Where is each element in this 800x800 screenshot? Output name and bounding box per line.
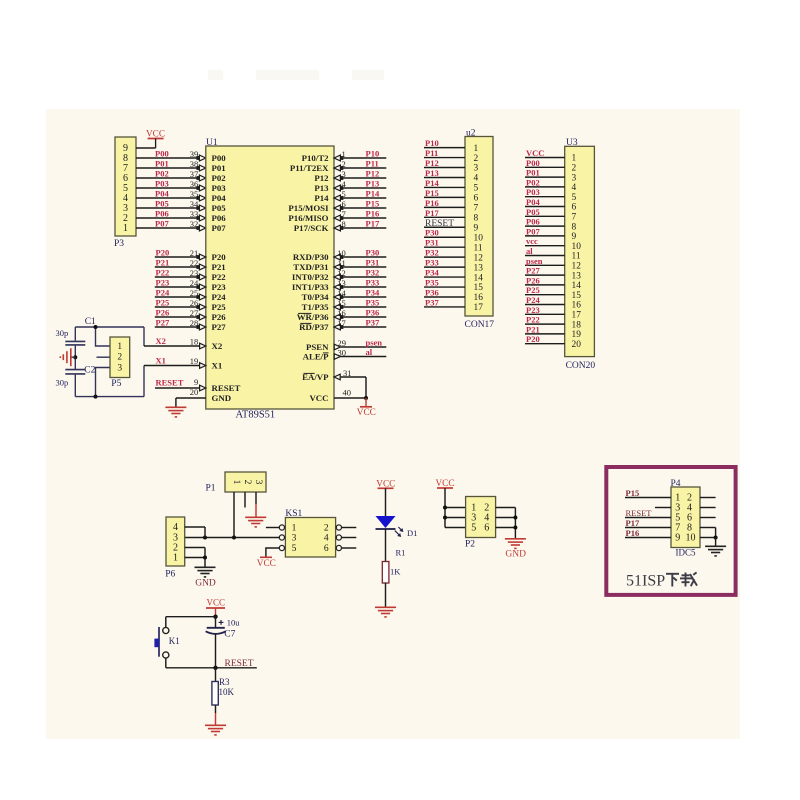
svg-text:3: 3	[292, 534, 297, 544]
svg-text:16: 16	[572, 301, 582, 311]
svg-text:11: 11	[474, 243, 483, 253]
svg-text:15: 15	[474, 283, 484, 293]
svg-text:P14: P14	[366, 189, 380, 199]
svg-text:36: 36	[190, 179, 199, 189]
svg-text:10: 10	[686, 533, 696, 544]
svg-text:C7: C7	[224, 630, 235, 640]
svg-text:1: 1	[572, 154, 577, 164]
svg-text:29: 29	[338, 338, 347, 348]
svg-text:C2: C2	[84, 366, 95, 376]
svg-text:P11: P11	[366, 159, 379, 169]
svg-text:P14: P14	[314, 193, 329, 203]
svg-text:P04: P04	[155, 189, 169, 199]
svg-text:P24: P24	[156, 288, 170, 298]
svg-text:18: 18	[190, 337, 199, 347]
svg-text:2: 2	[242, 480, 252, 485]
svg-text:CON20: CON20	[566, 361, 596, 371]
svg-text:VCC: VCC	[207, 598, 226, 608]
svg-text:RXD/P30: RXD/P30	[293, 252, 329, 262]
svg-text:12: 12	[572, 262, 582, 272]
svg-text:INT1/P33: INT1/P33	[292, 282, 329, 292]
svg-text:40: 40	[343, 388, 352, 398]
svg-text:2: 2	[324, 524, 329, 534]
svg-text:P00: P00	[526, 158, 540, 168]
svg-text:3: 3	[474, 164, 479, 174]
svg-text:P33: P33	[366, 278, 380, 288]
svg-text:P21: P21	[212, 262, 226, 272]
svg-text:P22: P22	[156, 268, 170, 278]
svg-text:8: 8	[342, 219, 346, 229]
svg-text:6: 6	[484, 523, 489, 534]
svg-text:P17: P17	[425, 208, 439, 218]
svg-text:31: 31	[343, 368, 352, 378]
svg-text:P02: P02	[526, 177, 540, 187]
svg-text:5: 5	[292, 544, 297, 554]
svg-text:P3: P3	[114, 239, 124, 249]
svg-text:P25: P25	[526, 285, 540, 295]
svg-text:CON17: CON17	[465, 320, 495, 330]
svg-text:6: 6	[324, 544, 329, 554]
svg-text:P37: P37	[366, 318, 380, 328]
svg-text:P04: P04	[212, 193, 227, 203]
svg-text:6: 6	[572, 203, 577, 213]
svg-text:30: 30	[338, 348, 347, 358]
svg-text:4: 4	[342, 179, 347, 189]
svg-text:P03: P03	[526, 187, 540, 197]
svg-text:14: 14	[474, 273, 484, 283]
svg-text:C1: C1	[85, 317, 96, 327]
svg-text:P03: P03	[155, 179, 169, 189]
svg-text:17: 17	[572, 311, 582, 321]
svg-text:9: 9	[675, 533, 680, 544]
svg-text:T0/P34: T0/P34	[302, 292, 329, 302]
svg-text:P15/MOSI: P15/MOSI	[288, 203, 329, 213]
svg-text:P36: P36	[425, 288, 439, 298]
svg-text:12: 12	[474, 253, 484, 263]
svg-text:P15: P15	[626, 488, 640, 498]
svg-text:P10: P10	[366, 149, 380, 159]
svg-text:P35: P35	[366, 298, 380, 308]
svg-text:7: 7	[342, 209, 346, 219]
svg-text:5: 5	[572, 193, 577, 203]
svg-text:P05: P05	[212, 203, 227, 213]
svg-text:P17/SCK: P17/SCK	[294, 223, 329, 233]
svg-text:P07: P07	[155, 219, 169, 229]
svg-text:P13: P13	[366, 179, 380, 189]
svg-text:GND: GND	[195, 579, 216, 589]
svg-text:20: 20	[190, 387, 199, 397]
svg-text:12: 12	[337, 268, 346, 278]
svg-text:al: al	[526, 246, 533, 256]
svg-text:30p: 30p	[56, 328, 69, 338]
svg-text:P30: P30	[425, 228, 439, 238]
svg-text:P01: P01	[212, 163, 226, 173]
svg-text:VCC: VCC	[309, 393, 328, 403]
svg-text:7: 7	[474, 204, 479, 214]
svg-text:1: 1	[342, 149, 346, 159]
svg-text:11: 11	[338, 258, 346, 268]
svg-text:P02: P02	[155, 169, 169, 179]
svg-text:17: 17	[474, 303, 484, 313]
svg-text:25: 25	[190, 288, 199, 298]
svg-text:4: 4	[173, 522, 178, 533]
svg-text:KS1: KS1	[285, 509, 302, 519]
svg-text:P20: P20	[526, 334, 540, 344]
svg-text:23: 23	[190, 268, 199, 278]
svg-text:P33: P33	[425, 258, 439, 268]
svg-text:P11: P11	[425, 148, 438, 158]
svg-text:34: 34	[190, 199, 199, 209]
svg-text:2: 2	[572, 164, 577, 174]
svg-text:X2: X2	[212, 341, 223, 351]
svg-text:P35: P35	[425, 278, 439, 288]
svg-text:9: 9	[474, 223, 479, 233]
svg-text:4: 4	[572, 183, 577, 193]
svg-text:1: 1	[474, 144, 479, 154]
svg-text:K1: K1	[169, 636, 180, 646]
svg-text:39: 39	[190, 149, 199, 159]
svg-text:1K: 1K	[390, 567, 401, 577]
svg-text:P14: P14	[425, 178, 439, 188]
svg-text:P16: P16	[425, 198, 439, 208]
svg-text:P06: P06	[526, 217, 540, 227]
svg-text:RESET: RESET	[156, 378, 184, 388]
svg-text:30p: 30p	[56, 378, 69, 388]
svg-text:P10: P10	[425, 138, 439, 148]
svg-text:P30: P30	[366, 248, 380, 258]
svg-text:P5: P5	[111, 379, 121, 389]
svg-text:P05: P05	[155, 199, 169, 209]
svg-text:RESET: RESET	[225, 659, 254, 669]
svg-text:18: 18	[572, 320, 582, 330]
svg-text:35: 35	[190, 189, 199, 199]
svg-text:RESET: RESET	[212, 383, 241, 393]
svg-text:P25: P25	[212, 302, 227, 312]
svg-text:P25: P25	[156, 298, 170, 308]
svg-text:P23: P23	[212, 282, 227, 292]
svg-text:1: 1	[173, 553, 178, 564]
svg-text:P11/T2EX: P11/T2EX	[290, 163, 329, 173]
svg-text:P21: P21	[526, 324, 540, 334]
svg-text:X1: X1	[156, 356, 166, 366]
svg-text:6: 6	[342, 199, 346, 209]
svg-text:10: 10	[474, 233, 484, 243]
svg-text:21: 21	[190, 248, 199, 258]
svg-text:P07: P07	[526, 226, 540, 236]
svg-text:AT89S51: AT89S51	[236, 410, 276, 421]
svg-text:P02: P02	[212, 173, 227, 183]
svg-text:10: 10	[337, 248, 346, 258]
svg-text:psen: psen	[526, 256, 543, 266]
svg-text:19: 19	[190, 356, 199, 366]
svg-text:1: 1	[117, 342, 122, 352]
svg-text:P16: P16	[626, 528, 640, 538]
svg-text:26: 26	[190, 298, 199, 308]
svg-text:P2: P2	[465, 540, 475, 550]
svg-text:13: 13	[337, 278, 346, 288]
svg-text:51ISP: 51ISP	[626, 573, 665, 590]
svg-text:10K: 10K	[219, 687, 235, 697]
svg-text:19: 19	[572, 330, 582, 340]
svg-text:P4: P4	[671, 479, 681, 489]
svg-text:P27: P27	[526, 266, 540, 276]
svg-text:P01: P01	[526, 168, 540, 178]
svg-text:38: 38	[190, 159, 199, 169]
svg-text:32: 32	[190, 219, 199, 229]
svg-text:P23: P23	[526, 305, 540, 315]
svg-text:14: 14	[337, 288, 346, 298]
svg-text:P12: P12	[425, 158, 439, 168]
svg-text:2: 2	[474, 154, 479, 164]
svg-text:2: 2	[342, 159, 346, 169]
svg-text:P04: P04	[526, 197, 540, 207]
svg-text:P27: P27	[156, 318, 170, 328]
svg-text:VCC: VCC	[357, 408, 376, 418]
svg-text:P24: P24	[526, 295, 540, 305]
svg-text:R1: R1	[396, 548, 406, 558]
svg-text:16: 16	[337, 308, 346, 318]
svg-text:13: 13	[572, 271, 582, 281]
svg-text:15: 15	[337, 298, 346, 308]
svg-text:P10/T2: P10/T2	[302, 153, 329, 163]
svg-text:3: 3	[342, 169, 346, 179]
svg-text:P34: P34	[366, 288, 380, 298]
svg-text:22: 22	[190, 258, 199, 268]
svg-text:P26: P26	[212, 312, 227, 322]
svg-text:20: 20	[572, 340, 582, 350]
svg-text:IDC5: IDC5	[676, 548, 696, 558]
svg-text:11: 11	[572, 252, 581, 262]
svg-text:P6: P6	[165, 570, 175, 580]
svg-text:GND: GND	[212, 393, 232, 403]
svg-text:P00: P00	[212, 153, 227, 163]
svg-text:P17: P17	[366, 219, 380, 229]
svg-text:16: 16	[474, 293, 484, 303]
svg-text:3: 3	[572, 173, 577, 183]
svg-text:14: 14	[572, 281, 582, 291]
svg-text:TXD/P31: TXD/P31	[293, 262, 328, 272]
svg-text:1: 1	[231, 480, 241, 485]
svg-text:33: 33	[190, 209, 199, 219]
svg-text:U3: U3	[566, 138, 578, 148]
svg-text:17: 17	[337, 318, 346, 328]
svg-text:P37: P37	[425, 297, 439, 307]
svg-text:P26: P26	[156, 308, 170, 318]
svg-text:P17: P17	[626, 518, 640, 528]
svg-text:RESET: RESET	[626, 508, 653, 518]
svg-text:5: 5	[471, 523, 476, 534]
svg-text:1: 1	[123, 223, 128, 234]
svg-text:27: 27	[190, 308, 199, 318]
svg-text:T1/P35: T1/P35	[302, 302, 329, 312]
svg-text:INT0/P32: INT0/P32	[292, 272, 329, 282]
svg-text:4: 4	[474, 174, 479, 184]
svg-text:D1: D1	[407, 528, 417, 538]
svg-text:P12: P12	[314, 173, 329, 183]
svg-text:X1: X1	[212, 360, 223, 370]
svg-text:P07: P07	[212, 223, 227, 233]
svg-text:37: 37	[190, 169, 199, 179]
svg-text:u2: u2	[466, 128, 476, 138]
svg-text:8: 8	[474, 214, 479, 224]
svg-text:VCC: VCC	[526, 148, 544, 158]
svg-text:P16/MISO: P16/MISO	[288, 213, 328, 223]
svg-text:X2: X2	[156, 336, 166, 346]
svg-text:P01: P01	[155, 159, 169, 169]
svg-text:7: 7	[572, 213, 577, 223]
svg-text:R3: R3	[219, 677, 230, 687]
svg-text:8: 8	[572, 222, 577, 232]
svg-text:6: 6	[474, 194, 479, 204]
svg-text:28: 28	[190, 318, 199, 328]
svg-text:24: 24	[190, 278, 199, 288]
svg-text:psen: psen	[366, 338, 383, 348]
svg-text:P21: P21	[156, 258, 170, 268]
svg-text:P13: P13	[314, 183, 329, 193]
svg-text:9: 9	[194, 377, 198, 387]
svg-text:P06: P06	[212, 213, 227, 223]
svg-text:P34: P34	[425, 268, 439, 278]
svg-text:10u: 10u	[227, 618, 241, 628]
svg-text:P12: P12	[366, 169, 380, 179]
svg-text:4: 4	[324, 534, 329, 544]
svg-text:P26: P26	[526, 275, 540, 285]
svg-text:15: 15	[572, 291, 582, 301]
svg-text:3: 3	[253, 480, 263, 485]
svg-text:P22: P22	[212, 272, 227, 282]
svg-text:vcc: vcc	[526, 236, 538, 246]
svg-text:P23: P23	[156, 278, 170, 288]
svg-text:P22: P22	[526, 315, 540, 325]
svg-text:P15: P15	[425, 188, 439, 198]
svg-text:VCC: VCC	[257, 559, 276, 569]
svg-text:3: 3	[117, 363, 122, 373]
svg-text:P20: P20	[212, 252, 227, 262]
svg-text:P03: P03	[212, 183, 227, 193]
svg-text:P32: P32	[425, 248, 439, 258]
svg-text:P31: P31	[425, 238, 439, 248]
svg-text:9: 9	[572, 232, 577, 242]
svg-text:10: 10	[572, 242, 582, 252]
svg-text:PSEN: PSEN	[306, 342, 329, 352]
svg-text:P05: P05	[526, 207, 540, 217]
svg-text:P32: P32	[366, 268, 380, 278]
svg-text:P13: P13	[425, 168, 439, 178]
svg-text:P31: P31	[366, 258, 380, 268]
svg-text:P15: P15	[366, 199, 380, 209]
svg-text:P20: P20	[156, 248, 170, 258]
svg-text:P16: P16	[366, 209, 380, 219]
svg-text:P00: P00	[155, 149, 169, 159]
svg-text:U1: U1	[206, 138, 218, 148]
svg-text:GND: GND	[505, 549, 526, 559]
svg-text:al: al	[366, 347, 373, 357]
svg-text:P06: P06	[155, 209, 169, 219]
svg-text:P36: P36	[366, 308, 380, 318]
svg-text:5: 5	[474, 184, 479, 194]
svg-text:2: 2	[117, 353, 122, 363]
svg-text:1: 1	[292, 524, 297, 534]
svg-text:P24: P24	[212, 292, 227, 302]
svg-text:P27: P27	[212, 322, 227, 332]
svg-text:P1: P1	[205, 484, 215, 494]
svg-text:5: 5	[342, 189, 346, 199]
svg-text:13: 13	[474, 263, 484, 273]
